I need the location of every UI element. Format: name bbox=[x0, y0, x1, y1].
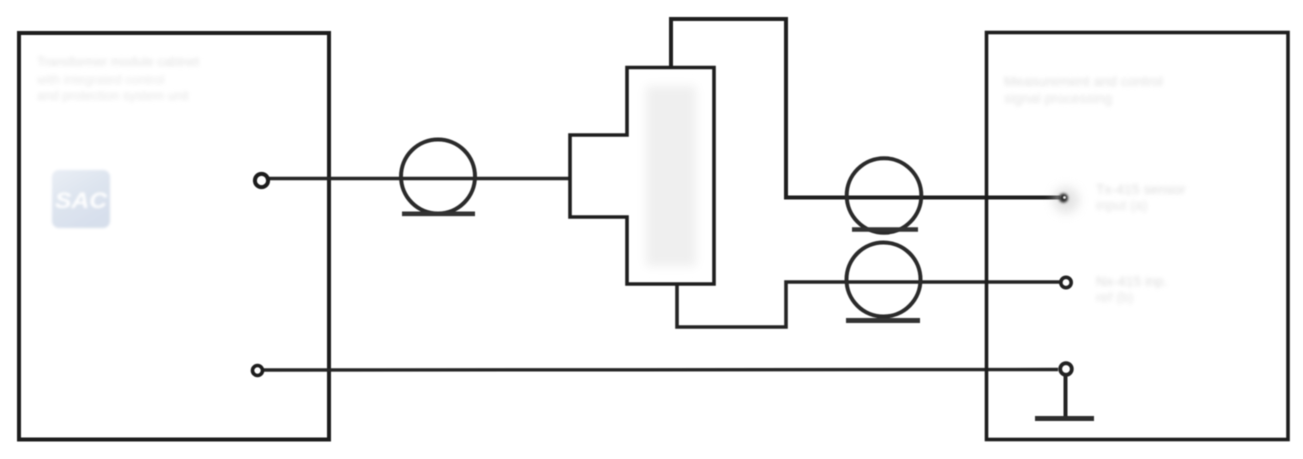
svg-text:ref (b): ref (b) bbox=[1096, 289, 1133, 305]
svg-text:Transformer module cabinet: Transformer module cabinet bbox=[37, 54, 199, 69]
svg-text:with integrated control: with integrated control bbox=[36, 72, 164, 87]
svg-text:Tx-415 sensor: Tx-415 sensor bbox=[1096, 181, 1186, 197]
svg-text:signal processing: signal processing bbox=[1004, 90, 1112, 106]
svg-text:and protection system unit: and protection system unit bbox=[37, 88, 189, 103]
svg-text:Measurement and control: Measurement and control bbox=[1004, 73, 1163, 89]
svg-text:SAC: SAC bbox=[55, 188, 108, 213]
svg-text:input (a): input (a) bbox=[1096, 197, 1147, 213]
svg-text:Nx-415 inp.: Nx-415 inp. bbox=[1096, 273, 1168, 289]
